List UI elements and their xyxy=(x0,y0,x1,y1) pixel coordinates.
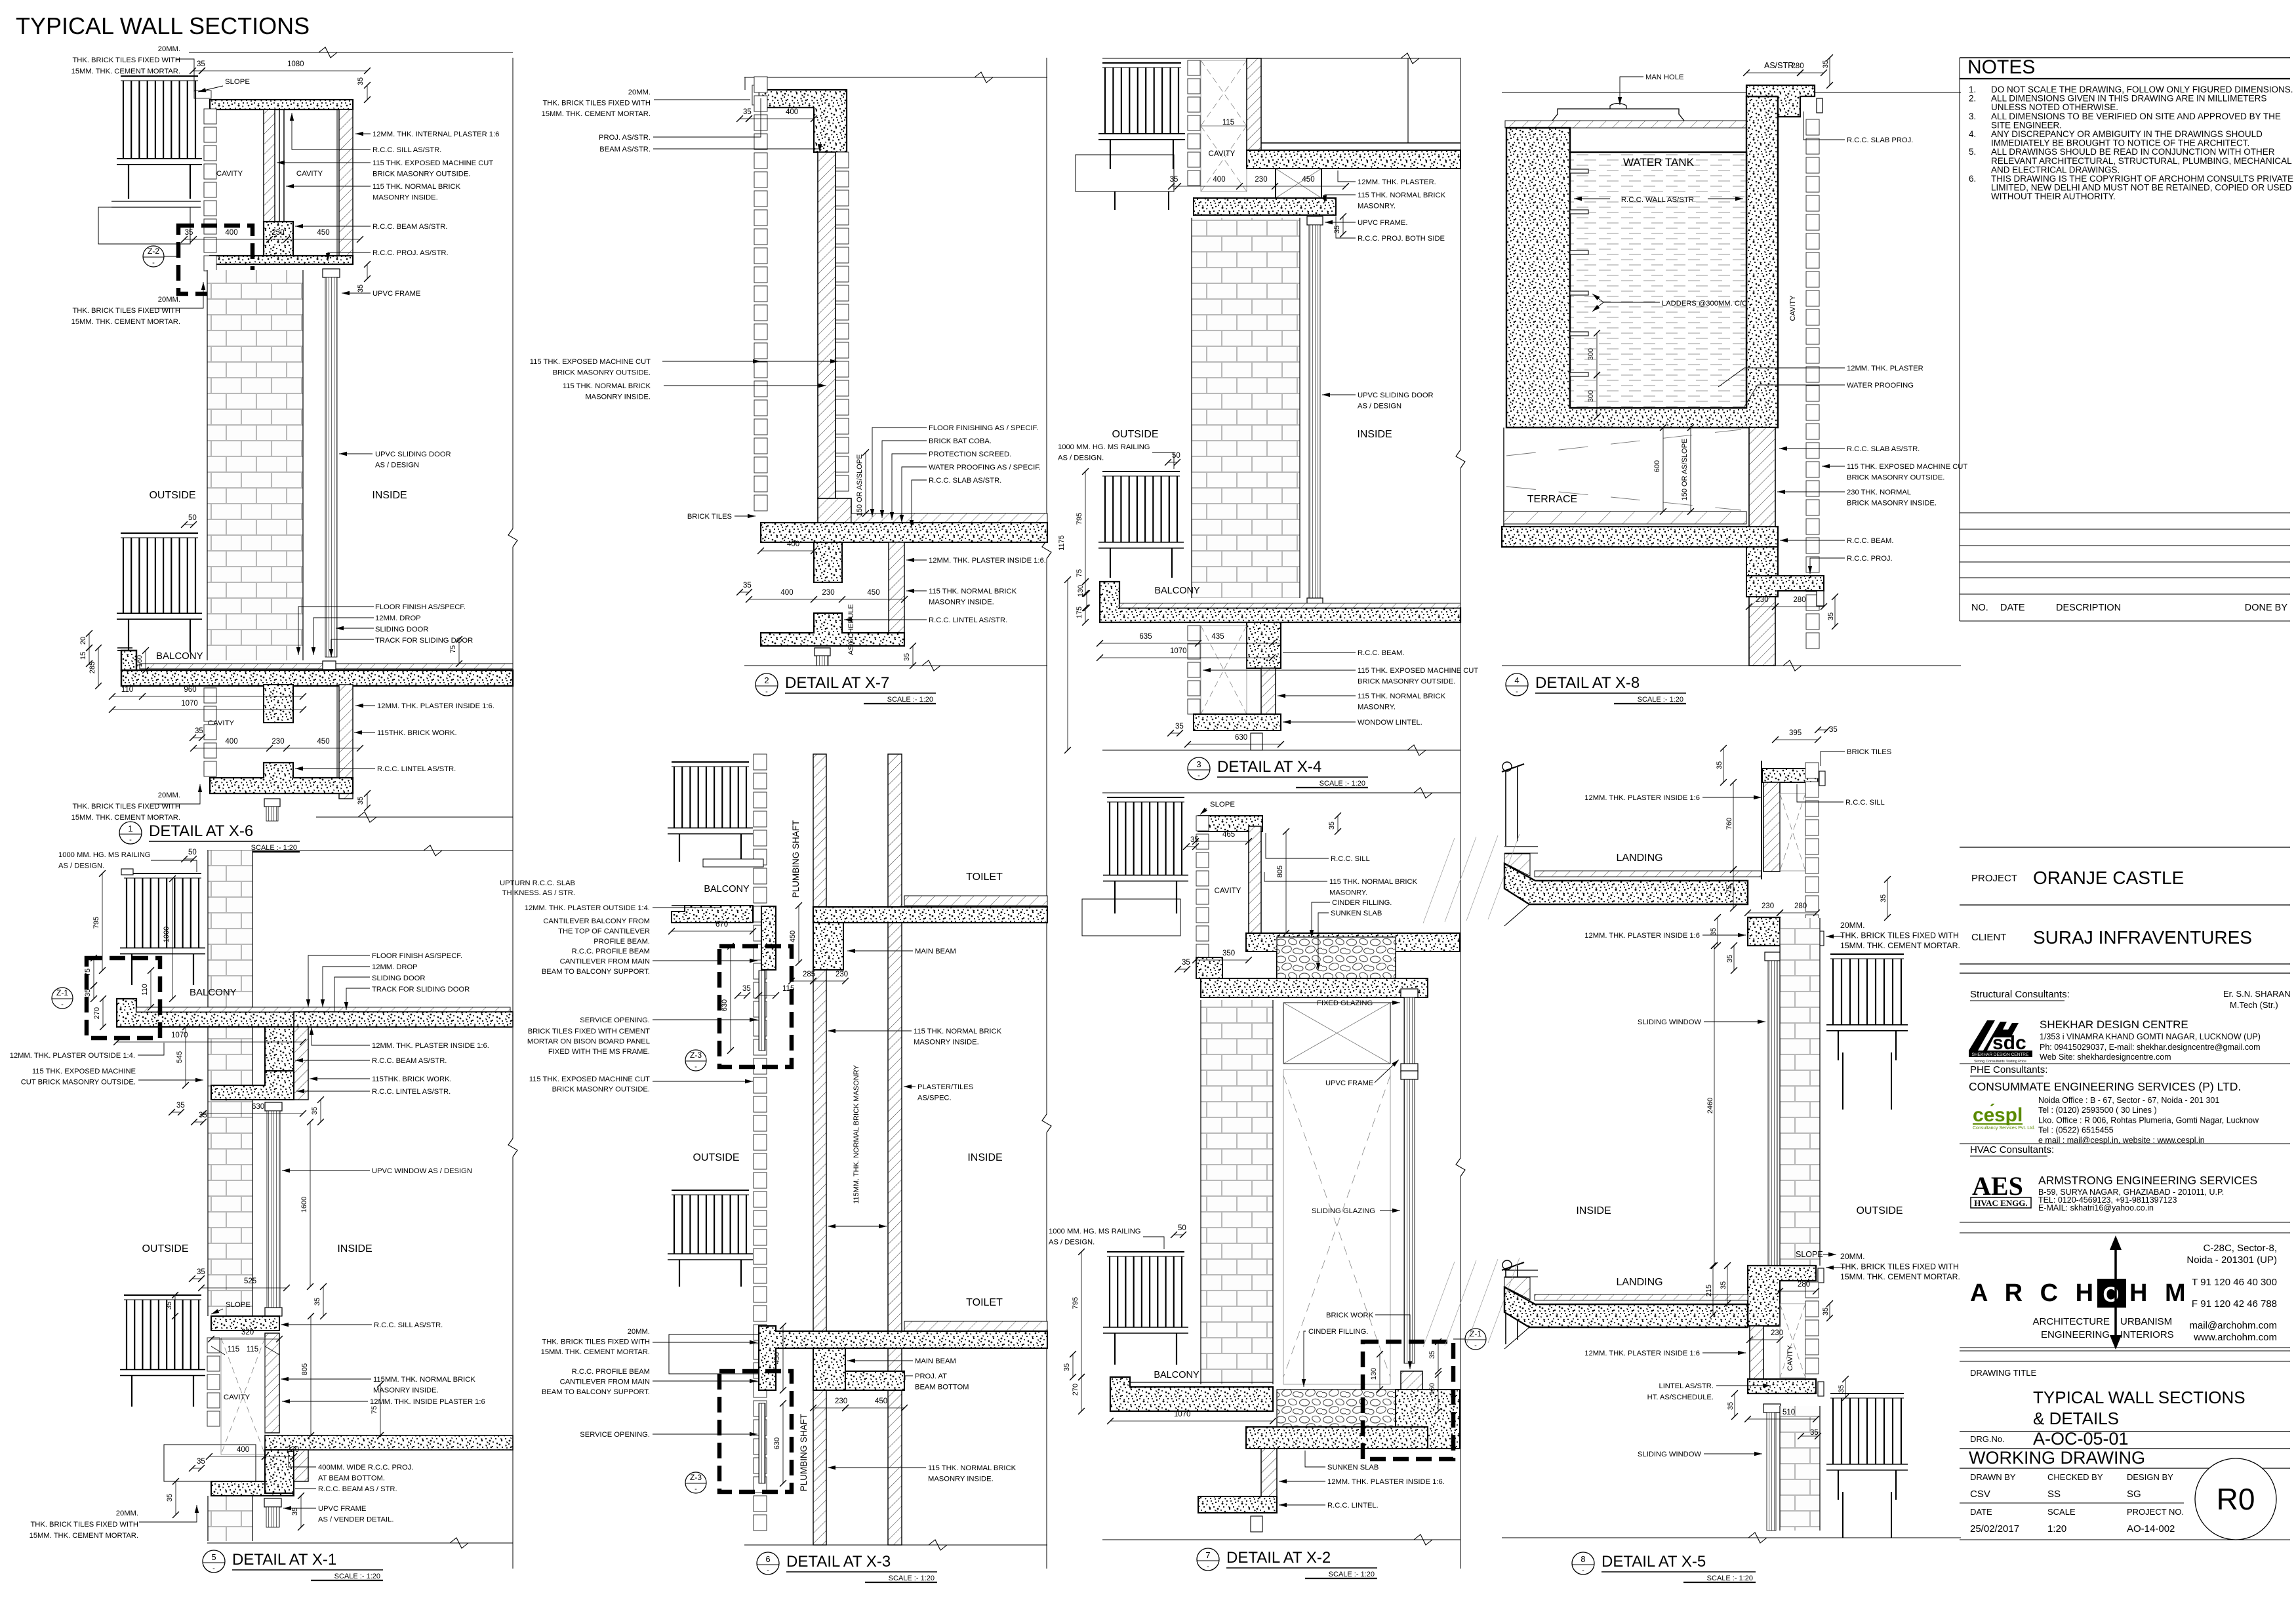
svg-text:DRG.No.: DRG.No. xyxy=(1970,1434,2005,1444)
svg-text:DATE: DATE xyxy=(1970,1507,1992,1517)
svg-text:35: 35 xyxy=(1810,1429,1819,1437)
svg-text:270: 270 xyxy=(1072,1384,1079,1395)
svg-text:400: 400 xyxy=(237,1446,249,1454)
svg-text:35: 35 xyxy=(1720,1281,1727,1289)
svg-text:THK. BRICK TILES FIXED WITH: THK. BRICK TILES FIXED WITH xyxy=(72,56,180,64)
svg-text:R.C.C. PROJ. AS/STR.: R.C.C. PROJ. AS/STR. xyxy=(373,249,449,257)
svg-text:12MM. THK. INTERNAL PLASTER 1:: 12MM. THK. INTERNAL PLASTER 1:6 xyxy=(373,130,499,138)
svg-text:15MM. THK. CEMENT MORTAR.: 15MM. THK. CEMENT MORTAR. xyxy=(71,814,180,822)
svg-text:AS / DESIGN: AS / DESIGN xyxy=(375,462,419,470)
svg-text:75: 75 xyxy=(1076,569,1083,577)
svg-text:115MM. THK. NORMAL BRICK: 115MM. THK. NORMAL BRICK xyxy=(373,1376,475,1384)
svg-text:795: 795 xyxy=(1072,1297,1079,1309)
svg-text:20MM.: 20MM. xyxy=(116,1510,138,1517)
svg-text:1175: 1175 xyxy=(1058,535,1066,551)
svg-text:12MM. THK. PLASTER: 12MM. THK. PLASTER xyxy=(1847,365,1923,372)
svg-text:630: 630 xyxy=(1235,734,1247,742)
svg-text:MORTAR ON BISON BOARD PANEL: MORTAR ON BISON BOARD PANEL xyxy=(527,1038,650,1046)
svg-text:130: 130 xyxy=(1077,585,1085,597)
svg-text:MASONRY INSIDE.: MASONRY INSIDE. xyxy=(585,393,651,401)
svg-text:110: 110 xyxy=(121,686,133,694)
svg-text:12MM. THK. PLASTER INSIDE 1:6.: 12MM. THK. PLASTER INSIDE 1:6. xyxy=(377,702,494,710)
svg-text:525: 525 xyxy=(244,1277,256,1285)
svg-text:450: 450 xyxy=(773,1352,781,1364)
svg-text:ENGINEERING: ENGINEERING xyxy=(2041,1329,2110,1340)
svg-text:SURAJ INFRAVENTURES: SURAJ INFRAVENTURES xyxy=(2033,927,2252,948)
svg-text:WATER PROOFING: WATER PROOFING xyxy=(1847,382,1914,390)
svg-text:630: 630 xyxy=(773,1437,781,1449)
svg-text:TYPICAL WALL SECTIONS: TYPICAL WALL SECTIONS xyxy=(2033,1388,2246,1407)
svg-text:35: 35 xyxy=(1822,1308,1830,1315)
svg-text:MASONRY INSIDE.: MASONRY INSIDE. xyxy=(373,194,438,202)
svg-text:WATER TANK: WATER TANK xyxy=(1623,156,1695,169)
svg-text:SCALE :- 1:20: SCALE :- 1:20 xyxy=(887,696,933,704)
svg-text:Tel : (0120) 2593500 ( 30 Line: Tel : (0120) 2593500 ( 30 Lines ) xyxy=(2038,1106,2157,1115)
svg-text:4: 4 xyxy=(1514,675,1519,685)
svg-text:SCALE :- 1:20: SCALE :- 1:20 xyxy=(1329,1571,1375,1578)
svg-text:CAVITY: CAVITY xyxy=(208,719,235,727)
svg-text:AES: AES xyxy=(1972,1171,2023,1201)
svg-text:MASONRY.: MASONRY. xyxy=(1329,889,1367,897)
svg-text:400: 400 xyxy=(787,540,799,548)
svg-text:H M: H M xyxy=(2129,1279,2191,1307)
svg-text:F 91 120 42 46 788: F 91 120 42 46 788 xyxy=(2192,1298,2277,1310)
svg-text:UPVC WINDOW AS / DESIGN: UPVC WINDOW AS / DESIGN xyxy=(372,1167,472,1175)
svg-text:280: 280 xyxy=(1798,1281,1810,1289)
svg-text:35: 35 xyxy=(311,1107,319,1115)
svg-text:MASONRY INSIDE.: MASONRY INSIDE. xyxy=(914,1039,979,1047)
svg-text:230 THK. NORMAL: 230 THK. NORMAL xyxy=(1847,489,1911,496)
svg-text:115THK. BRICK WORK.: 115THK. BRICK WORK. xyxy=(372,1075,452,1083)
svg-text:435: 435 xyxy=(1211,633,1224,641)
svg-text:670: 670 xyxy=(715,921,728,929)
svg-text:SS: SS xyxy=(2047,1489,2061,1500)
svg-text:115 THK. NORMAL BRICK: 115 THK. NORMAL BRICK xyxy=(928,1464,1017,1472)
svg-text:450: 450 xyxy=(317,738,329,746)
svg-text:Strong Consultants Tasting Pri: Strong Consultants Tasting Price xyxy=(1974,1060,2026,1064)
svg-text:CHECKED BY: CHECKED BY xyxy=(2047,1472,2103,1482)
svg-text:AS/SPEC.: AS/SPEC. xyxy=(917,1094,952,1102)
svg-text:TOILET: TOILET xyxy=(966,1297,1003,1308)
svg-text:AO-14-002: AO-14-002 xyxy=(2127,1523,2175,1534)
svg-text:BEAM AS/STR.: BEAM AS/STR. xyxy=(599,146,651,153)
svg-text:400: 400 xyxy=(780,589,793,597)
svg-text:8: 8 xyxy=(1581,1554,1585,1564)
svg-text:230: 230 xyxy=(836,971,848,978)
svg-text:R.C.C. BEAM AS / STR.: R.C.C. BEAM AS / STR. xyxy=(318,1485,397,1493)
svg-text:THK. BRICK TILES FIXED WITH: THK. BRICK TILES FIXED WITH xyxy=(1840,931,1959,940)
svg-text:Web Site: shekhardesigncentre.: Web Site: shekhardesigncentre.com xyxy=(2040,1052,2171,1062)
svg-text:A-OC-05-01: A-OC-05-01 xyxy=(2033,1429,2129,1449)
svg-text:285: 285 xyxy=(89,662,96,673)
svg-text:UPVC FRAME.: UPVC FRAME. xyxy=(1358,219,1407,227)
svg-text:HVAC Consultants:: HVAC Consultants: xyxy=(1970,1144,2054,1155)
svg-text:BRICK TILES: BRICK TILES xyxy=(687,513,732,521)
svg-text:AS / DESIGN: AS / DESIGN xyxy=(1358,403,1401,411)
svg-text:35: 35 xyxy=(1829,726,1838,734)
svg-text:DESCRIPTION: DESCRIPTION xyxy=(2056,603,2121,613)
svg-text:A R C H: A R C H xyxy=(1970,1279,2099,1307)
svg-text:35: 35 xyxy=(743,582,752,590)
svg-text:R.C.C. LINTEL.: R.C.C. LINTEL. xyxy=(1327,1502,1379,1510)
svg-text:R.C.C. LINTEL AS/STR.: R.C.C. LINTEL AS/STR. xyxy=(372,1088,451,1096)
svg-text:SLOPE: SLOPE xyxy=(1796,1250,1823,1259)
svg-text:SERVICE OPENING.: SERVICE OPENING. xyxy=(580,1431,650,1439)
svg-text:MASONRY INSIDE.: MASONRY INSIDE. xyxy=(373,1387,439,1395)
svg-text:115 THK. EXPOSED MACHINE CUT: 115 THK. EXPOSED MACHINE CUT xyxy=(530,358,651,366)
svg-text:R.C.C. BEAM.: R.C.C. BEAM. xyxy=(1847,537,1893,545)
svg-text:395: 395 xyxy=(1789,729,1802,737)
svg-text:15: 15 xyxy=(79,652,87,660)
svg-text:MAIN BEAM: MAIN BEAM xyxy=(915,1357,956,1365)
svg-text:PROJ. AT: PROJ. AT xyxy=(915,1373,947,1380)
svg-text:CONSUMMATE ENGINEERING SERVICE: CONSUMMATE ENGINEERING SERVICES (P) LTD. xyxy=(1969,1080,2241,1093)
svg-text:12MM. THK. PLASTER INSIDE 1:6: 12MM. THK. PLASTER INSIDE 1:6 xyxy=(1584,1350,1700,1357)
svg-text:FLOOR FINISHING AS / SPECIF.: FLOOR FINISHING AS / SPECIF. xyxy=(929,424,1038,432)
svg-text:R.C.C. SILL: R.C.C. SILL xyxy=(1331,855,1370,863)
svg-text:35: 35 xyxy=(1428,1351,1436,1359)
svg-text:CLIENT: CLIENT xyxy=(1971,932,2006,943)
svg-text:3.: 3. xyxy=(1969,111,1976,121)
svg-text:35: 35 xyxy=(1827,612,1835,620)
svg-text:35: 35 xyxy=(743,108,752,116)
svg-text:-: - xyxy=(212,1565,215,1573)
svg-text:R.C.C. SILL: R.C.C. SILL xyxy=(1845,799,1885,807)
svg-text:115THK. BRICK WORK.: 115THK. BRICK WORK. xyxy=(377,729,457,737)
svg-text:DETAIL AT X-3: DETAIL AT X-3 xyxy=(786,1553,891,1571)
svg-text:LINTEL AS/STR.: LINTEL AS/STR. xyxy=(1659,1382,1714,1390)
svg-text:AS / DESIGN.: AS / DESIGN. xyxy=(1058,454,1104,462)
svg-text:CAVITY: CAVITY xyxy=(1209,150,1236,158)
svg-text:CAVITY: CAVITY xyxy=(224,1393,251,1401)
svg-text:160: 160 xyxy=(1428,1383,1436,1395)
svg-text:WONDOW LINTEL.: WONDOW LINTEL. xyxy=(1358,719,1422,727)
svg-text:R.C.C. SILL AS/STR.: R.C.C. SILL AS/STR. xyxy=(373,146,441,154)
svg-text:795: 795 xyxy=(1076,513,1083,525)
svg-text:BRICK TILES: BRICK TILES xyxy=(1847,748,1891,756)
svg-text:50: 50 xyxy=(188,514,197,522)
svg-text:-: - xyxy=(767,1567,769,1574)
svg-text:PROJECT NO.: PROJECT NO. xyxy=(2127,1507,2184,1517)
svg-text:BRICK WORK: BRICK WORK xyxy=(1326,1312,1374,1319)
svg-text:SG: SG xyxy=(2127,1489,2141,1500)
svg-text:T 91 120 46 40 300: T 91 120 46 40 300 xyxy=(2192,1277,2277,1288)
svg-text:12MM. THK. PLASTER OUTSIDE 1:4: 12MM. THK. PLASTER OUTSIDE 1:4. xyxy=(10,1052,135,1060)
svg-text:35: 35 xyxy=(357,77,365,85)
svg-text:465: 465 xyxy=(1222,831,1235,839)
svg-text:Lko. Office : R 006, Rohtas Pl: Lko. Office : R 006, Rohtas Plumeria, Go… xyxy=(2038,1115,2259,1125)
svg-text:PHE Consultants:: PHE Consultants: xyxy=(1970,1064,2047,1075)
svg-text:LANDING: LANDING xyxy=(1616,852,1662,864)
svg-text:75: 75 xyxy=(449,645,457,653)
svg-text:THK. BRICK TILES FIXED WITH: THK. BRICK TILES FIXED WITH xyxy=(30,1521,138,1529)
svg-text:R.C.C. WALL AS/STR.: R.C.C. WALL AS/STR. xyxy=(1621,196,1696,204)
svg-text:DETAIL AT X-8: DETAIL AT X-8 xyxy=(1535,674,1640,692)
svg-text:www.archohm.com: www.archohm.com xyxy=(2193,1332,2277,1343)
svg-text:BRICK MASONRY OUTSIDE.: BRICK MASONRY OUTSIDE. xyxy=(552,1086,650,1094)
svg-text:115MM. THK. NORMAL BRICK MASON: 115MM. THK. NORMAL BRICK MASONRY xyxy=(853,1064,860,1203)
svg-text:-: - xyxy=(61,1001,64,1009)
svg-text:115 THK. NORMAL BRICK: 115 THK. NORMAL BRICK xyxy=(929,588,1017,595)
svg-text:CAVITY: CAVITY xyxy=(1215,887,1241,895)
svg-text:2460: 2460 xyxy=(1706,1098,1714,1113)
svg-text:35: 35 xyxy=(176,1102,185,1110)
svg-text:115 THK. EXPOSED MACHINE CUT: 115 THK. EXPOSED MACHINE CUT xyxy=(373,159,493,167)
svg-text:THK. BRICK TILES FIXED WITH: THK. BRICK TILES FIXED WITH xyxy=(542,1338,650,1346)
svg-text:R.C.C. PROJ.: R.C.C. PROJ. xyxy=(1847,555,1893,563)
svg-text:115 THK. NORMAL BRICK: 115 THK. NORMAL BRICK xyxy=(1358,191,1446,199)
svg-text:35: 35 xyxy=(1727,1402,1735,1410)
svg-text:75: 75 xyxy=(84,969,92,976)
svg-text:50: 50 xyxy=(1178,1224,1186,1232)
svg-text:CANTILEVER BALCONY FROM: CANTILEVER BALCONY FROM xyxy=(543,917,650,925)
svg-text:DRAWN BY: DRAWN BY xyxy=(1970,1472,2016,1482)
svg-text:12MM. THK. PLASTER INSIDE 1:6.: 12MM. THK. PLASTER INSIDE 1:6. xyxy=(372,1042,489,1050)
svg-text:20MM.: 20MM. xyxy=(158,296,180,304)
svg-text:PLASTER/TILES: PLASTER/TILES xyxy=(917,1083,973,1091)
svg-text:35: 35 xyxy=(195,727,203,735)
svg-text:5: 5 xyxy=(211,1552,216,1562)
svg-text:SCALE :- 1:20: SCALE :- 1:20 xyxy=(1638,696,1683,704)
svg-text:2.: 2. xyxy=(1969,94,1976,104)
svg-text:BRICK TILES FIXED WITH CEMENT: BRICK TILES FIXED WITH CEMENT xyxy=(528,1028,650,1035)
svg-text:130: 130 xyxy=(1370,1368,1378,1380)
svg-text:WORKING DRAWING: WORKING DRAWING xyxy=(1969,1448,2145,1468)
svg-text:115: 115 xyxy=(782,985,794,993)
svg-text:Structural Consultants:: Structural Consultants: xyxy=(1970,989,2070,1000)
svg-text:OUTSIDE: OUTSIDE xyxy=(149,490,195,501)
svg-text:300: 300 xyxy=(1587,348,1595,360)
svg-text:20MM.: 20MM. xyxy=(158,791,180,799)
svg-text:UPVC SLIDING DOOR: UPVC SLIDING DOOR xyxy=(1358,391,1434,399)
svg-text:35: 35 xyxy=(165,1302,173,1310)
svg-text:1070: 1070 xyxy=(1170,647,1187,655)
svg-text:115 THK. EXPOSED MACHINE CUT: 115 THK. EXPOSED MACHINE CUT xyxy=(1847,463,1967,471)
svg-text:FLOOR FINISH AS/SPECF.: FLOOR FINISH AS/SPECF. xyxy=(375,603,466,611)
svg-text:ce: ce xyxy=(1973,1104,1994,1126)
svg-text:20: 20 xyxy=(79,637,87,645)
svg-text:OUTSIDE: OUTSIDE xyxy=(693,1152,739,1163)
svg-text:110: 110 xyxy=(141,984,149,995)
svg-text:ORANJE CASTLE: ORANJE CASTLE xyxy=(2033,868,2184,888)
svg-text:35: 35 xyxy=(357,797,365,805)
svg-text:1:20: 1:20 xyxy=(2047,1523,2066,1534)
svg-text:795: 795 xyxy=(92,917,100,929)
svg-text:BALCONY: BALCONY xyxy=(704,884,750,894)
svg-text:UPTURN R.C.C. SLAB: UPTURN R.C.C. SLAB xyxy=(500,879,575,887)
svg-text:LADDERS @300MM. C/C: LADDERS @300MM. C/C xyxy=(1662,300,1747,308)
svg-text:MAIN BEAM: MAIN BEAM xyxy=(915,948,956,955)
svg-text:450: 450 xyxy=(1302,176,1314,184)
svg-text:INTERIORS: INTERIORS xyxy=(2120,1329,2174,1340)
svg-text:TOILET: TOILET xyxy=(966,872,1003,883)
svg-text:E-MAIL: skhatri16@yahoo.co.in: E-MAIL: skhatri16@yahoo.co.in xyxy=(2038,1203,2154,1212)
svg-text:1600: 1600 xyxy=(300,1197,308,1212)
svg-text:35: 35 xyxy=(1822,60,1830,68)
svg-text:35: 35 xyxy=(1063,1363,1071,1371)
svg-text:TYPICAL WALL SECTIONS: TYPICAL WALL SECTIONS xyxy=(16,12,310,39)
svg-text:PLUMBING SHAFT: PLUMBING SHAFT xyxy=(799,1414,809,1492)
svg-text:115 THK. EXPOSED MACHINE: 115 THK. EXPOSED MACHINE xyxy=(32,1068,136,1075)
svg-text:FLOOR FINISH AS/SPECF.: FLOOR FINISH AS/SPECF. xyxy=(372,952,462,960)
svg-text:150 OR AS/SLOPE: 150 OR AS/SLOPE xyxy=(1681,439,1689,501)
svg-text:115: 115 xyxy=(228,1346,239,1353)
svg-text:35: 35 xyxy=(1880,894,1887,902)
svg-text:230: 230 xyxy=(272,738,284,746)
svg-text:300: 300 xyxy=(1587,390,1595,402)
svg-text:MASONRY.: MASONRY. xyxy=(1358,203,1396,210)
svg-text:115: 115 xyxy=(247,1346,258,1353)
svg-text:630: 630 xyxy=(721,999,729,1011)
svg-text:175: 175 xyxy=(1076,607,1083,618)
svg-text:SCALE :- 1:20: SCALE :- 1:20 xyxy=(889,1574,935,1582)
svg-text:SCALE :- 1:20: SCALE :- 1:20 xyxy=(1707,1574,1753,1582)
svg-text:-: - xyxy=(1198,772,1200,780)
svg-text:SLOPE: SLOPE xyxy=(226,1301,251,1309)
svg-text:SCALE :- 1:20: SCALE :- 1:20 xyxy=(334,1573,380,1580)
svg-text:BEAM TO BALCONY SUPPORT.: BEAM TO BALCONY SUPPORT. xyxy=(542,968,650,976)
svg-text:12MM. THK. PLASTER INSIDE 1:6.: 12MM. THK. PLASTER INSIDE 1:6. xyxy=(1327,1478,1445,1486)
svg-text:R.C.C. SLAB AS/STR.: R.C.C. SLAB AS/STR. xyxy=(929,477,1001,485)
svg-text:HT. AS/SCHEDULE.: HT. AS/SCHEDULE. xyxy=(1647,1393,1714,1401)
svg-text:12MM. THK. PLASTER INSIDE 1:6: 12MM. THK. PLASTER INSIDE 1:6 xyxy=(1584,932,1700,940)
svg-text:805: 805 xyxy=(301,1363,309,1375)
svg-text:35: 35 xyxy=(903,653,911,661)
svg-text:50: 50 xyxy=(1172,452,1180,460)
svg-text:75: 75 xyxy=(1725,885,1733,893)
svg-text:BEAM TO BALCONY SUPPORT.: BEAM TO BALCONY SUPPORT. xyxy=(542,1388,650,1396)
svg-text:& DETAILS: & DETAILS xyxy=(2033,1409,2119,1428)
svg-text:Tel : (0522) 6515455: Tel : (0522) 6515455 xyxy=(2038,1126,2114,1135)
svg-text:R.C.C. BEAM.: R.C.C. BEAM. xyxy=(1358,649,1404,657)
svg-text:20MM.: 20MM. xyxy=(158,45,180,53)
svg-text:Er. S.N. SHARAN: Er. S.N. SHARAN xyxy=(2223,989,2291,999)
svg-text:450: 450 xyxy=(317,229,329,237)
svg-text:35: 35 xyxy=(1182,959,1190,967)
svg-text:-: - xyxy=(695,1063,697,1071)
svg-text:MASONRY INSIDE.: MASONRY INSIDE. xyxy=(928,1475,994,1483)
svg-text:115 THK. EXPOSED MACHINE CUT: 115 THK. EXPOSED MACHINE CUT xyxy=(529,1075,650,1083)
svg-text:AS / DESIGN.: AS / DESIGN. xyxy=(58,862,104,870)
svg-text:35: 35 xyxy=(1333,226,1341,233)
svg-text:400: 400 xyxy=(1213,176,1225,184)
svg-text:AS / VENDER DETAIL.: AS / VENDER DETAIL. xyxy=(318,1516,393,1524)
svg-text:35: 35 xyxy=(1726,955,1734,963)
svg-text:CANTILEVER FROM MAIN: CANTILEVER FROM MAIN xyxy=(560,1378,650,1386)
svg-text:MAN HOLE: MAN HOLE xyxy=(1645,73,1683,81)
svg-text:SHEKHAR DESIGN CENTRE: SHEKHAR DESIGN CENTRE xyxy=(2040,1018,2188,1031)
svg-text:760: 760 xyxy=(1725,818,1733,830)
svg-text:R.C.C. PROFILE BEAM: R.C.C. PROFILE BEAM xyxy=(572,1368,650,1376)
svg-text:Z-3: Z-3 xyxy=(690,1473,702,1482)
svg-text:C-28C, Sector-8,: C-28C, Sector-8, xyxy=(2203,1243,2277,1254)
svg-text:Z-2: Z-2 xyxy=(148,247,159,256)
svg-text:15MM. THK. CEMENT MORTAR.: 15MM. THK. CEMENT MORTAR. xyxy=(71,318,180,326)
svg-text:BALCONY: BALCONY xyxy=(1154,586,1200,596)
svg-text:15MM. THK. CEMENT MORTAR.: 15MM. THK. CEMENT MORTAR. xyxy=(541,1348,650,1356)
svg-text:1/353 i VINAMRA KHAND GOMTI NA: 1/353 i VINAMRA KHAND GOMTI NAGAR, LUCKN… xyxy=(2040,1032,2261,1041)
svg-text:3: 3 xyxy=(1196,759,1201,769)
svg-text:PROTECTION SCREED.: PROTECTION SCREED. xyxy=(929,451,1011,458)
svg-text:35: 35 xyxy=(84,989,92,997)
svg-text:35: 35 xyxy=(166,1494,174,1502)
svg-text:15MM. THK. CEMENT MORTAR.: 15MM. THK. CEMENT MORTAR. xyxy=(71,68,180,75)
svg-text:400: 400 xyxy=(225,229,237,237)
svg-text:CSV: CSV xyxy=(1970,1489,1990,1500)
svg-text:280: 280 xyxy=(1793,596,1805,604)
svg-text:SLIDING WINDOW: SLIDING WINDOW xyxy=(1638,1018,1701,1026)
svg-text:115 THK. NORMAL BRICK: 115 THK. NORMAL BRICK xyxy=(563,382,651,390)
svg-text:R.C.C. SILL AS/STR.: R.C.C. SILL AS/STR. xyxy=(374,1321,443,1329)
svg-text:SCALE :- 1:20: SCALE :- 1:20 xyxy=(1319,780,1365,788)
svg-text:FIXED WITH THE MS FRAME.: FIXED WITH THE MS FRAME. xyxy=(548,1048,650,1056)
svg-text:450: 450 xyxy=(875,1397,887,1405)
svg-text:230: 230 xyxy=(1771,1329,1783,1337)
svg-text:1000 MM. HG. MS RAILING: 1000 MM. HG. MS RAILING xyxy=(1058,443,1150,451)
svg-text:230: 230 xyxy=(1762,902,1774,910)
svg-text:230: 230 xyxy=(1255,176,1267,184)
svg-text:MASONRY INSIDE.: MASONRY INSIDE. xyxy=(929,599,994,607)
svg-text:BRICK MASONRY INSIDE.: BRICK MASONRY INSIDE. xyxy=(1847,500,1937,508)
svg-text:BALCONY: BALCONY xyxy=(190,987,237,998)
svg-text:BRICK MASONRY OUTSIDE.: BRICK MASONRY OUTSIDE. xyxy=(553,369,651,377)
svg-text:Z-3: Z-3 xyxy=(690,1051,702,1060)
svg-text:35: 35 xyxy=(357,285,365,292)
svg-text:270: 270 xyxy=(93,1007,101,1019)
svg-text:PLUMBING SHAFT: PLUMBING SHAFT xyxy=(791,820,801,898)
svg-text:960: 960 xyxy=(184,686,196,694)
svg-text:SUNKEN SLAB: SUNKEN SLAB xyxy=(1331,910,1382,917)
svg-text:15MM. THK. CEMENT MORTAR.: 15MM. THK. CEMENT MORTAR. xyxy=(30,1532,138,1540)
svg-text:20MM.: 20MM. xyxy=(1840,1252,1865,1261)
svg-text:600: 600 xyxy=(1653,460,1661,472)
svg-text:75: 75 xyxy=(371,1406,378,1414)
svg-text:THK. BRICK TILES FIXED WITH: THK. BRICK TILES FIXED WITH xyxy=(542,100,651,108)
svg-text:ARMSTRONG ENGINEERING SERVICES: ARMSTRONG ENGINEERING SERVICES xyxy=(2038,1174,2257,1187)
svg-text:NO.: NO. xyxy=(1971,603,1988,613)
svg-text:25/02/2017: 25/02/2017 xyxy=(1970,1523,2019,1534)
svg-text:R.C.C. PROJ. BOTH SIDE: R.C.C. PROJ. BOTH SIDE xyxy=(1358,235,1445,243)
svg-text:230: 230 xyxy=(822,589,834,597)
svg-text:230: 230 xyxy=(835,1397,847,1405)
svg-text:UPVC FRAME: UPVC FRAME xyxy=(318,1505,366,1513)
svg-text:WATER PROOFING AS / SPECIF.: WATER PROOFING AS / SPECIF. xyxy=(929,464,1041,471)
svg-text:CAVITY: CAVITY xyxy=(296,170,323,178)
svg-text:R.C.C. BEAM AS/STR.: R.C.C. BEAM AS/STR. xyxy=(373,223,447,231)
svg-text:M.Tech (Str.): M.Tech (Str.) xyxy=(2230,1000,2278,1010)
svg-text:15MM. THK. CEMENT MORTAR.: 15MM. THK. CEMENT MORTAR. xyxy=(1840,941,1960,950)
svg-text:Z-1: Z-1 xyxy=(56,988,68,997)
svg-text:35: 35 xyxy=(197,1458,205,1466)
svg-text:CAVITY: CAVITY xyxy=(1789,295,1797,321)
svg-text:CUT BRICK MASONRY OUTSIDE.: CUT BRICK MASONRY OUTSIDE. xyxy=(21,1079,136,1087)
svg-text:635: 635 xyxy=(1139,633,1152,641)
svg-text:SLIDING DOOR: SLIDING DOOR xyxy=(372,974,425,982)
svg-text:INSIDE: INSIDE xyxy=(1357,429,1392,440)
svg-text:12MM. THK. PLASTER INSIDE 1:6.: 12MM. THK. PLASTER INSIDE 1:6. xyxy=(929,557,1046,565)
svg-text:PROJECT: PROJECT xyxy=(1971,873,2017,884)
svg-text:LANDING: LANDING xyxy=(1616,1277,1662,1288)
svg-text:R.C.C. BEAM AS/STR.: R.C.C. BEAM AS/STR. xyxy=(372,1057,447,1065)
svg-text:-: - xyxy=(1474,1342,1477,1350)
svg-text:35: 35 xyxy=(1170,176,1178,184)
svg-text:115 THK. EXPOSED MACHINE CUT: 115 THK. EXPOSED MACHINE CUT xyxy=(1358,667,1478,675)
svg-text:SLOPE: SLOPE xyxy=(225,78,250,86)
svg-text:DESIGN BY: DESIGN BY xyxy=(2127,1472,2173,1482)
svg-text:35: 35 xyxy=(313,1298,321,1306)
svg-text:UPVC SLIDING DOOR: UPVC SLIDING DOOR xyxy=(375,451,451,458)
svg-text:35: 35 xyxy=(197,1268,205,1276)
